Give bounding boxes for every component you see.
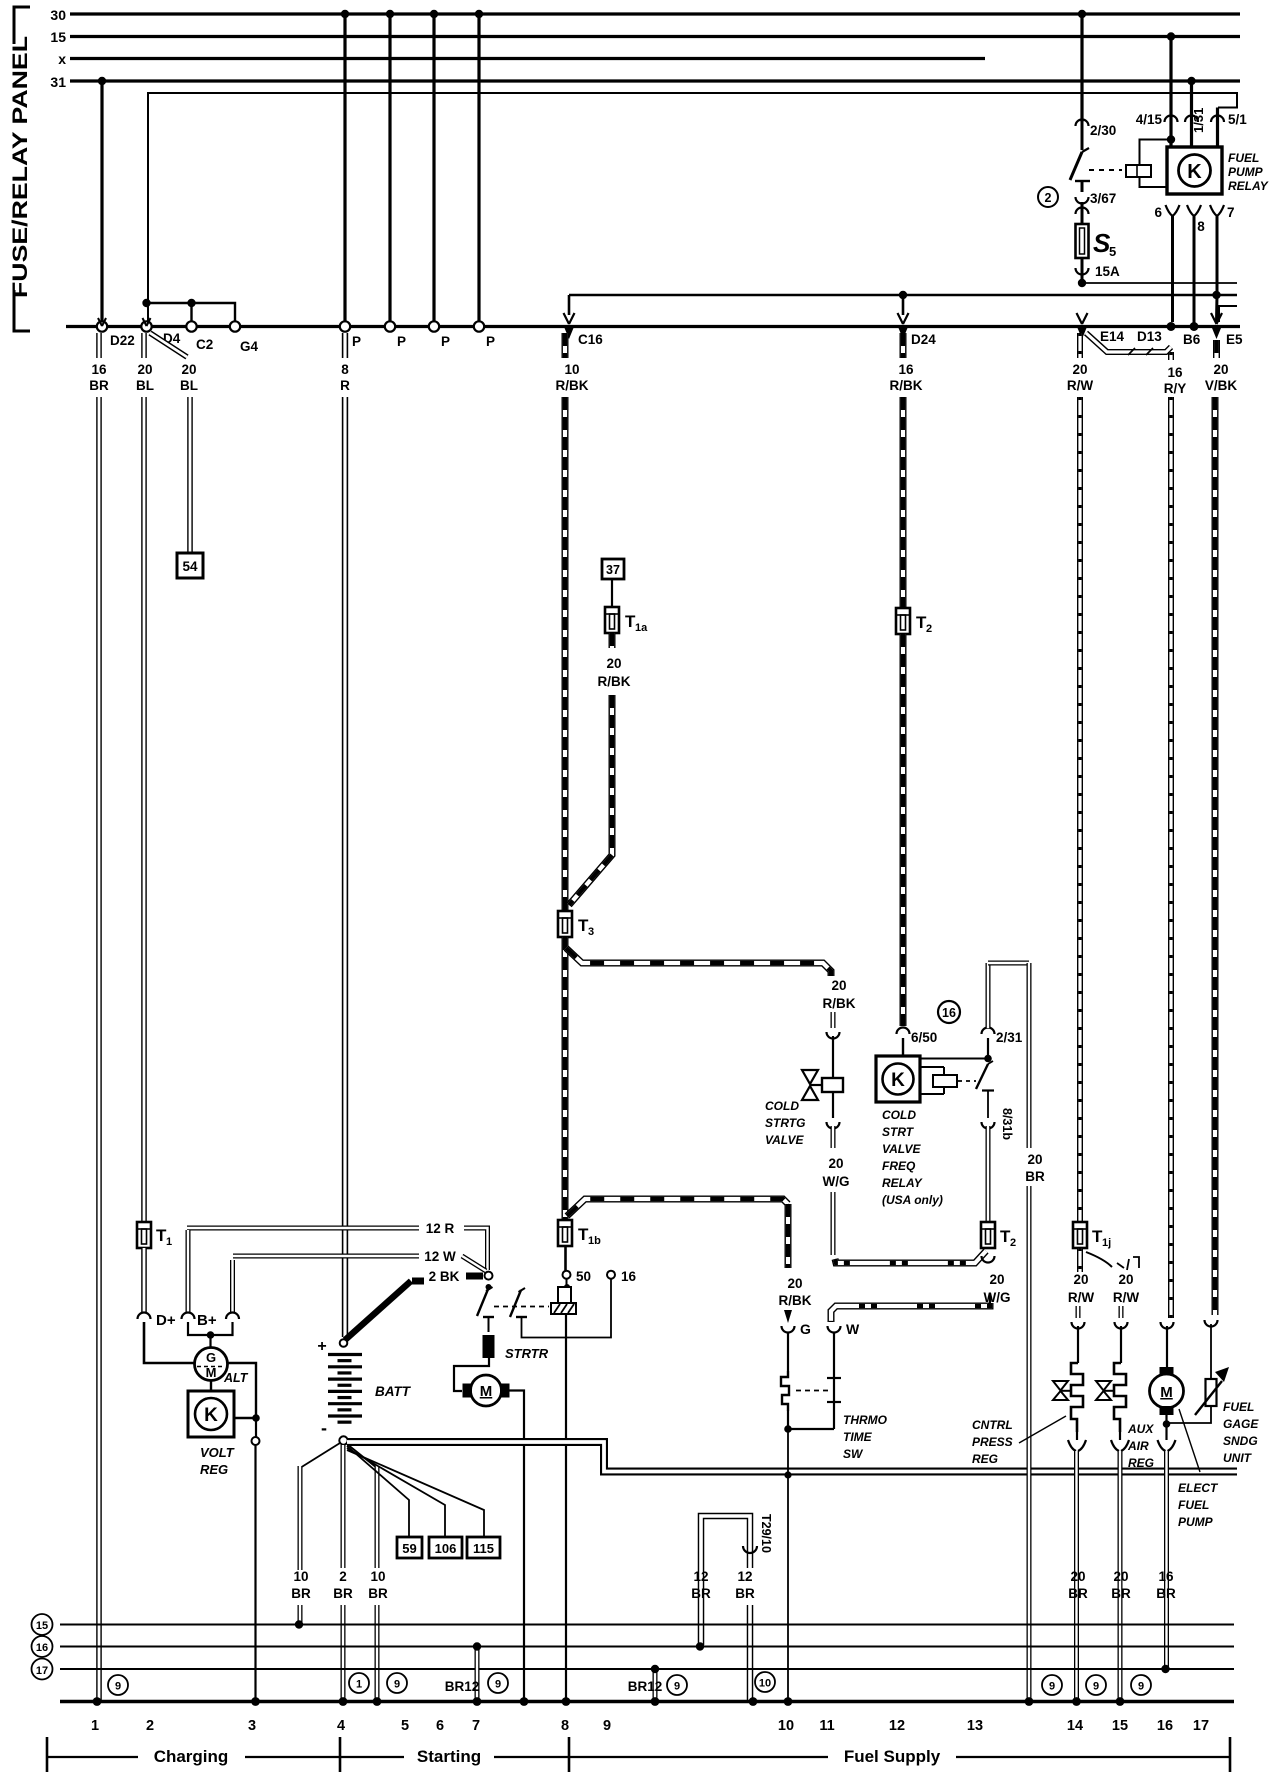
BR12 wire (bus16) (475, 1647, 480, 1701)
svg-text:106: 106 (435, 1541, 457, 1556)
wire thermo to ground (787, 1429, 789, 1700)
svg-text:BR: BR (1156, 1586, 1176, 1601)
connector T1j (1073, 1222, 1087, 1248)
BR12 wire (bus17) (653, 1669, 658, 1700)
connector T1 (137, 1222, 151, 1248)
battery plates BATT (328, 1353, 362, 1356)
wire solenoid to bottom (565, 1314, 567, 1700)
svg-text:12: 12 (693, 1569, 708, 1584)
svg-text:3/67: 3/67 (1090, 191, 1116, 206)
svg-text:1/31: 1/31 (1191, 108, 1206, 133)
bus x (70, 57, 985, 60)
circled 2 (1038, 187, 1058, 207)
fuse/relay panel bracket (14, 7, 30, 331)
svg-text:15: 15 (36, 1620, 48, 1632)
svg-text:37: 37 (606, 563, 620, 577)
svg-text:1a: 1a (635, 622, 648, 634)
wire to aux air reg (1119, 1306, 1124, 1318)
wire 4/15 drop from bus 15 (1169, 37, 1172, 148)
svg-text:BATT: BATT (375, 1384, 412, 1399)
fuse S5 (1081, 202, 1084, 224)
svg-text:BR: BR (691, 1586, 711, 1601)
svg-text:9: 9 (495, 1679, 501, 1691)
terminal 2/30 (1076, 120, 1089, 126)
svg-text:1b: 1b (588, 1235, 601, 1247)
relay coil (1140, 140, 1172, 166)
svg-text:11: 11 (819, 1718, 834, 1734)
svg-text:REG: REG (1128, 1456, 1154, 1470)
wire 10 R/BK main (C16 down) (562, 333, 569, 358)
svg-text:COLD: COLD (882, 1108, 916, 1122)
wire 20 BR to ground (1027, 963, 1032, 1148)
junction dots on bottom rail (93, 1697, 102, 1706)
wire relay 6 to D13 (1171, 216, 1174, 322)
svg-text:2: 2 (926, 623, 932, 635)
cold start valve freq relay box K (876, 1056, 920, 1102)
wire 10 BR right (347, 1444, 377, 1468)
svg-text:BR: BR (333, 1586, 353, 1601)
svg-text:2: 2 (146, 1718, 154, 1734)
alternator feed joins (188, 1322, 233, 1335)
svg-text:R: R (340, 378, 350, 393)
svg-text:15A: 15A (1095, 264, 1120, 279)
wire 16 R/BK (D24) (900, 333, 907, 358)
svg-text:V/BK: V/BK (1205, 378, 1238, 393)
wire 8 R (P to battery) (342, 333, 348, 358)
wire stub to right edge (1219, 306, 1237, 322)
terminal 6/50 (897, 1028, 910, 1034)
svg-text:20: 20 (606, 656, 621, 671)
wire 5/1 (1216, 108, 1219, 148)
svg-text:16: 16 (36, 1642, 48, 1654)
svg-text:R/Y: R/Y (1164, 381, 1187, 396)
svg-text:W/G: W/G (823, 1174, 850, 1189)
svg-text:6: 6 (436, 1718, 444, 1734)
terminal 50 (563, 1271, 571, 1279)
svg-text:R/BK: R/BK (556, 378, 589, 393)
svg-text:20: 20 (1073, 1272, 1088, 1287)
terminal D+ (138, 1313, 151, 1320)
svg-text:20: 20 (1213, 362, 1228, 377)
terminal 3/67 (1076, 197, 1089, 204)
branch T3 to cold start valve (566, 948, 831, 976)
svg-text:K: K (1187, 161, 1202, 183)
wire 20 V/BK (E5) (1213, 340, 1220, 358)
wire 8/31b (987, 1091, 989, 1118)
svg-text:RELAY: RELAY (1228, 179, 1269, 193)
ground ref circles (108, 1675, 128, 1695)
svg-text:CNTRL: CNTRL (972, 1418, 1013, 1432)
svg-text:9: 9 (115, 1681, 121, 1693)
svg-text:2/31: 2/31 (996, 1030, 1023, 1045)
terminal B6 (1190, 322, 1199, 331)
svg-text:SNDG: SNDG (1223, 1434, 1258, 1448)
ignition switch blade 1 (486, 1284, 492, 1290)
svg-text:FREQ: FREQ (882, 1159, 916, 1173)
svg-text:12 W: 12 W (424, 1249, 456, 1264)
wire 20 BL (D4 to T1) (141, 333, 147, 358)
wire 50 below T1b (564, 1246, 567, 1271)
svg-text:16: 16 (1158, 1569, 1174, 1584)
svg-text:G4: G4 (240, 339, 259, 354)
svg-text:12: 12 (737, 1569, 752, 1584)
svg-text:8: 8 (1197, 219, 1205, 234)
svg-text:9: 9 (1049, 1681, 1055, 1693)
sndg unit to pump junction (1167, 1406, 1212, 1423)
svg-text:1j: 1j (1102, 1237, 1111, 1249)
terminal B+ left (186, 1230, 191, 1312)
svg-text:10: 10 (293, 1569, 308, 1584)
terminal D4 (141, 321, 151, 331)
svg-text:M: M (206, 1365, 217, 1380)
svg-text:20: 20 (989, 1272, 1004, 1287)
svg-text:G: G (206, 1350, 216, 1365)
junction dots 12BR (696, 1642, 704, 1650)
svg-text:20: 20 (181, 362, 196, 377)
terminal G4 (230, 321, 240, 331)
wire T2 to thermo W (989, 1294, 991, 1303)
connector T3 (558, 911, 572, 937)
svg-text:59: 59 (402, 1541, 416, 1556)
wire 16 R/Y jog from E14 (1086, 333, 1171, 352)
svg-text:R/BK: R/BK (823, 996, 856, 1011)
cntrl press reg body (1071, 1363, 1083, 1432)
svg-text:9: 9 (674, 1681, 680, 1693)
ignition switch blade 2 (510, 1290, 521, 1317)
svg-text:8: 8 (561, 1718, 569, 1734)
wire 1/31 drop from bus 31 (1190, 81, 1193, 147)
svg-text:K: K (204, 1405, 218, 1426)
terminal E14 (1077, 313, 1088, 324)
aux air reg body (1114, 1363, 1126, 1432)
wire fuse output header (thin) (1082, 282, 1237, 284)
wire 16 BR left (D22 to ground) (96, 333, 102, 358)
svg-text:Charging: Charging (154, 1747, 229, 1766)
svg-text:10: 10 (759, 1678, 771, 1690)
svg-text:R/W: R/W (1068, 1290, 1095, 1305)
svg-text:AIR: AIR (1127, 1439, 1149, 1453)
svg-text:BR12: BR12 (628, 1679, 663, 1694)
svg-text:4: 4 (337, 1718, 345, 1734)
svg-text:5: 5 (401, 1718, 409, 1734)
svg-text:6: 6 (1154, 205, 1162, 220)
svg-text:20: 20 (787, 1276, 802, 1291)
terminal D24 (898, 313, 909, 324)
svg-text:54: 54 (182, 559, 198, 574)
svg-text:8: 8 (341, 362, 349, 377)
circled 16 (938, 1001, 960, 1023)
svg-text:x: x (58, 51, 66, 67)
elect fuel pump motor (1160, 1367, 1174, 1376)
svg-text:9: 9 (1093, 1681, 1099, 1693)
svg-text:UNIT: UNIT (1223, 1451, 1253, 1465)
wire to cntrl press reg (1076, 1306, 1081, 1318)
svg-text:ALT: ALT (223, 1371, 249, 1385)
terminal W (828, 1326, 841, 1333)
svg-text:50: 50 (576, 1269, 591, 1284)
wire valve to T2 (W/G run) (831, 1192, 836, 1255)
connector T2 (lower) (981, 1222, 995, 1248)
box 59 (397, 1537, 422, 1558)
svg-text:TIME: TIME (843, 1430, 873, 1444)
bottom rail (60, 1700, 1234, 1704)
wire motor to ground (510, 1391, 525, 1701)
connector T1b (558, 1220, 572, 1246)
svg-text:RELAY: RELAY (882, 1176, 923, 1190)
svg-text:PRESS: PRESS (972, 1435, 1013, 1449)
svg-text:ELECT: ELECT (1178, 1481, 1219, 1495)
svg-text:14: 14 (1067, 1718, 1083, 1734)
terminal 2/31 (982, 1028, 995, 1034)
svg-text:P: P (486, 334, 495, 349)
ground bus 17 (60, 1668, 1234, 1670)
freq relay switch (987, 1038, 989, 1059)
svg-text:BL: BL (180, 378, 198, 393)
svg-text:2/30: 2/30 (1090, 123, 1116, 138)
svg-text:+: + (317, 1338, 326, 1355)
battery ground rail (347, 1442, 1237, 1472)
svg-text:BR: BR (291, 1586, 311, 1601)
wire alternator B- to ground (228, 1363, 257, 1418)
wire valve down 20 W/G (832, 1092, 834, 1118)
wire relay 8 to B6 (1193, 216, 1196, 324)
terminal 16 (607, 1271, 615, 1279)
wire 16 R/Y down (1168, 352, 1174, 360)
svg-text:16: 16 (1157, 1718, 1173, 1734)
cntrl press reg valve (1053, 1381, 1068, 1400)
svg-text:VALVE: VALVE (882, 1142, 921, 1156)
svg-text:STRT: STRT (882, 1125, 915, 1139)
cold start valve (802, 1070, 818, 1100)
dashed actuator link (1089, 169, 1122, 171)
terminal B+ right (230, 1260, 235, 1312)
svg-text:17: 17 (1193, 1718, 1209, 1734)
svg-text:16: 16 (1167, 365, 1183, 380)
svg-text:P: P (352, 334, 361, 349)
svg-text:30: 30 (50, 7, 66, 23)
wire alternator to volt reg (210, 1381, 212, 1392)
svg-text:REG: REG (200, 1462, 228, 1477)
cntrl press reg ground 20 BR (1076, 1432, 1078, 1440)
svg-text:FUEL: FUEL (1223, 1400, 1254, 1414)
starter motor M (454, 1358, 489, 1391)
svg-text:COLD: COLD (765, 1099, 799, 1113)
svg-text:D+: D+ (156, 1312, 176, 1329)
box 37 (602, 559, 624, 579)
svg-text:R/BK: R/BK (779, 1293, 812, 1308)
terminal C2 (186, 321, 196, 331)
svg-text:B+: B+ (197, 1312, 217, 1329)
svg-text:G: G (800, 1321, 811, 1337)
wire 20 R/BK from 37 to main (609, 633, 616, 648)
svg-text:9: 9 (603, 1718, 611, 1734)
svg-text:D24: D24 (911, 332, 936, 347)
wire 2/31 up and over to 20 BR (986, 963, 991, 1028)
svg-text:1: 1 (356, 1679, 362, 1691)
svg-text:Starting: Starting (417, 1747, 481, 1766)
cable 2 BK (412, 1278, 424, 1285)
svg-text:THRMO: THRMO (843, 1413, 888, 1427)
connector T1a (611, 579, 613, 607)
svg-text:15: 15 (1112, 1718, 1128, 1734)
ground bus 15 (60, 1624, 1234, 1626)
svg-text:STRTG: STRTG (765, 1116, 805, 1130)
svg-text:20: 20 (1113, 1569, 1128, 1584)
connector T2 (upper) (896, 608, 910, 634)
relay contact switch (1070, 152, 1082, 180)
fuel pump relay box K (1167, 147, 1222, 194)
wire P drops from bus 30 (343, 14, 346, 322)
svg-text:B6: B6 (1183, 332, 1201, 347)
svg-text:20: 20 (831, 978, 846, 993)
branch T1j to aux air reg (1086, 1252, 1112, 1267)
svg-text:VALVE: VALVE (765, 1133, 804, 1147)
svg-text:M: M (1160, 1384, 1173, 1401)
terminal D22 (97, 321, 107, 331)
svg-text:BR: BR (89, 378, 109, 393)
svg-text:7: 7 (1227, 205, 1235, 220)
ground bus 16 (60, 1646, 1234, 1648)
terminals P (340, 321, 350, 331)
thin feed line to relay 5/1 (148, 93, 1237, 322)
svg-text:PUMP: PUMP (1228, 165, 1264, 179)
wire D22 drop from bus 31 (100, 81, 103, 322)
svg-text:16: 16 (621, 1269, 637, 1284)
svg-text:20: 20 (1027, 1152, 1042, 1167)
svg-text:8/31b: 8/31b (1000, 1108, 1014, 1140)
svg-text:2: 2 (1045, 191, 1052, 205)
svg-text:7: 7 (472, 1718, 480, 1734)
svg-text:3: 3 (248, 1718, 256, 1734)
svg-text:AUX: AUX (1127, 1422, 1154, 1436)
svg-text:12: 12 (889, 1718, 905, 1734)
svg-text:PUMP: PUMP (1178, 1515, 1214, 1529)
svg-text:-: - (321, 1418, 327, 1438)
aux air reg valve (1096, 1381, 1111, 1400)
svg-text:FUEL: FUEL (1228, 151, 1259, 165)
svg-text:R/W: R/W (1113, 1290, 1140, 1305)
wire to box 115 (347, 1450, 484, 1537)
svg-text:13: 13 (967, 1718, 983, 1734)
svg-text:5/1: 5/1 (1228, 112, 1247, 127)
box 54 (177, 553, 203, 578)
label 12 R (187, 1226, 419, 1231)
svg-text:6/50: 6/50 (911, 1030, 937, 1045)
svg-text:P: P (397, 334, 406, 349)
jumper D4-C2-G4 (147, 303, 236, 322)
svg-text:115: 115 (473, 1541, 494, 1556)
bus 15 (70, 35, 1240, 38)
svg-text:15: 15 (50, 29, 66, 45)
svg-text:T29/10: T29/10 (759, 1514, 773, 1553)
terminal C16 (564, 313, 575, 324)
svg-text:10: 10 (564, 362, 579, 377)
thermo time switch (787, 1332, 789, 1371)
box 115 (467, 1537, 500, 1558)
volt reg K box (188, 1391, 234, 1437)
wire relay 7 to E5 (1215, 216, 1219, 322)
wire C16 header line (569, 294, 1237, 297)
svg-text:BR12: BR12 (445, 1679, 480, 1694)
bus 31 (70, 79, 1240, 82)
svg-text:1: 1 (91, 1718, 99, 1734)
svg-text:12 R: 12 R (426, 1221, 455, 1236)
wire blade2 to 16 (522, 1279, 612, 1338)
svg-text:9: 9 (394, 1679, 400, 1691)
svg-text:P: P (441, 334, 450, 349)
fuse rating 15A (1081, 258, 1084, 283)
svg-text:3: 3 (588, 926, 594, 938)
wire 2/30 drop from bus 30 (1080, 14, 1083, 122)
bus 30 (70, 12, 1240, 15)
wire D+ to alternator (144, 1322, 194, 1363)
svg-text:BR: BR (1025, 1169, 1045, 1184)
wire to box 59 (347, 1446, 409, 1537)
svg-text:E14: E14 (1100, 329, 1125, 344)
wire 2 BR (341, 1445, 346, 1568)
svg-text:16: 16 (91, 362, 107, 377)
svg-text:BR: BR (1111, 1586, 1131, 1601)
svg-text:10: 10 (778, 1718, 794, 1734)
fuel pump ground 16 BR (1165, 1424, 1167, 1440)
svg-text:FUSE/RELAY PANEL: FUSE/RELAY PANEL (9, 36, 32, 298)
wire 10 BR left (300, 1443, 340, 1468)
alternator G ALT (195, 1348, 228, 1381)
branch T1b to thermo G (567, 1199, 788, 1216)
panel bottom line (66, 325, 1240, 328)
terminal E5 (1211, 313, 1222, 324)
wire 20 BL second (D4 to 54) (150, 333, 187, 357)
wire 12 BR loop T29/10 (701, 1516, 750, 1645)
freq relay coil (920, 1066, 944, 1068)
svg-text:D13: D13 (1137, 329, 1162, 344)
svg-text:R/BK: R/BK (890, 378, 923, 393)
section brackets (46, 1737, 49, 1772)
relay output terminals 6 8 7 (1166, 205, 1180, 216)
svg-text:STRTR: STRTR (505, 1346, 549, 1361)
aux air reg ground 20 BR (1119, 1432, 1121, 1440)
svg-text:20: 20 (1072, 362, 1087, 377)
svg-text:REG: REG (972, 1452, 998, 1466)
svg-text:BR: BR (1068, 1586, 1088, 1601)
solenoid core (551, 1303, 576, 1314)
svg-text:C16: C16 (578, 332, 603, 347)
svg-text:4/15: 4/15 (1136, 112, 1163, 127)
svg-text:20: 20 (137, 362, 152, 377)
svg-text:10: 10 (370, 1569, 385, 1584)
terminal G (784, 1310, 792, 1323)
svg-text:M: M (480, 1383, 493, 1400)
svg-text:BR: BR (368, 1586, 388, 1601)
riser D24 (902, 295, 905, 315)
svg-text:20: 20 (1118, 1272, 1133, 1287)
svg-text:K: K (891, 1070, 905, 1091)
dashed link (958, 1080, 976, 1082)
svg-text:R/BK: R/BK (598, 674, 631, 689)
svg-text:(USA only): (USA only) (882, 1193, 943, 1207)
svg-text:16: 16 (942, 1006, 956, 1020)
svg-text:R/W: R/W (1067, 378, 1094, 393)
dashed switch link (494, 1306, 549, 1308)
svg-text:D22: D22 (110, 333, 135, 348)
terminal D13 (1167, 322, 1176, 331)
svg-text:SW: SW (843, 1447, 864, 1461)
svg-text:20: 20 (1070, 1569, 1085, 1584)
svg-text:BL: BL (136, 378, 154, 393)
svg-text:2: 2 (1010, 1237, 1016, 1249)
svg-text:20: 20 (828, 1156, 843, 1171)
svg-text:VOLT: VOLT (200, 1445, 235, 1460)
